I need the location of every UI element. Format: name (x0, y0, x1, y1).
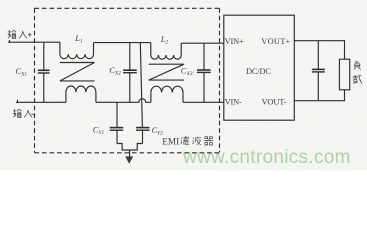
char 输 (13, 109, 21, 117)
minus sign (31, 113, 34, 115)
choke L1 bottom winding (66, 92, 96, 102)
label 输入+ (input +) top left (8, 30, 32, 38)
capacitor CX1 (43, 42, 45, 102)
wire top to VIN+ (181, 42, 224, 44)
char 入 (19, 31, 27, 39)
component labels (15, 33, 192, 136)
svg-text:VOUT-: VOUT- (262, 97, 287, 106)
plus sign (28, 33, 32, 37)
capacitor CX3 (203, 43, 205, 102)
ground stem (129, 150, 131, 157)
svg-text:VIN-: VIN- (225, 98, 242, 107)
output capacitor (317, 41, 319, 101)
choke L2 core (149, 64, 184, 80)
svg-text:EMI: EMI (162, 137, 179, 147)
capacitor CX2 (129, 43, 131, 103)
char 入 (24, 110, 32, 118)
wire bottom to VIN- (183, 101, 224, 103)
label EMI滤波器 (162, 136, 213, 146)
svg-text:VIN+: VIN+ (225, 37, 244, 46)
load resistor box (339, 59, 349, 90)
wire bottom input (16, 100, 66, 103)
wire top middle (94, 42, 151, 44)
label 负载 (load) (353, 61, 362, 84)
svg-text:VOUT+: VOUT+ (261, 37, 290, 46)
char 输 (8, 30, 16, 38)
wire VOUT+ to load (294, 41, 344, 60)
wire top input (8, 41, 60, 43)
choke L1 core (60, 63, 95, 81)
ground arrow head (125, 156, 133, 163)
capacitor CY2 vertical from top line (140, 43, 142, 144)
wire bottom middle with hop over CY2 line (96, 99, 151, 103)
svg-text:www.cntronics.com: www.cntronics.com (182, 147, 351, 168)
char 负 (354, 61, 361, 70)
choke L1 top winding (60, 42, 94, 54)
capacitor CY1 (116, 102, 118, 143)
char 滤 (181, 136, 189, 144)
char 载 (353, 75, 362, 84)
svg-text:DC/DC: DC/DC (246, 67, 271, 76)
label 输入- (input -) bottom left (13, 109, 35, 117)
DC/DC pin labels (225, 37, 291, 107)
terminal tick top (9, 40, 11, 42)
ground bus with notch (117, 144, 143, 151)
char 波 (192, 137, 201, 145)
choke L2 bottom winding (151, 92, 183, 102)
char 器 (204, 137, 213, 145)
EMI filter dashed enclosure (35, 8, 220, 153)
DC/DC converter box U1 (224, 15, 294, 120)
choke L2 top winding (151, 43, 181, 55)
wire VOUT- to load (294, 90, 344, 101)
